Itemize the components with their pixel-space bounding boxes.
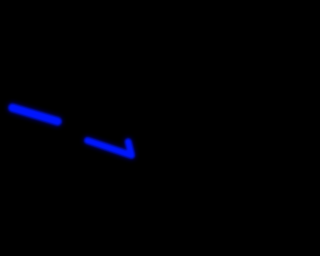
stroke 2 (checkmark-like stroke) (88, 141, 132, 156)
stroke 1 (thick blue dash, upper left) (13, 108, 58, 122)
